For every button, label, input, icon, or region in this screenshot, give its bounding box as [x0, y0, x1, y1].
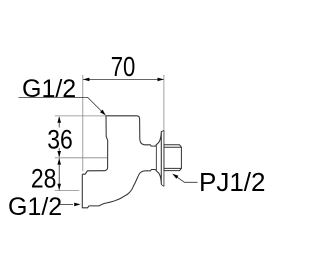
- leader for bottom G1/2: [60, 204, 73, 206]
- svg-text:G1/2: G1/2: [8, 193, 62, 221]
- svg-text:PJ1/2: PJ1/2: [199, 167, 266, 197]
- arrowhead right of 70 dim: [158, 78, 164, 82]
- extension line left vertical (x=82.8): [82, 75, 84, 171]
- svg-text:28: 28: [31, 164, 57, 194]
- leader for PJ1/2: [174, 175, 198, 183]
- body main outline: [82, 116, 161, 208]
- dim 28 vertical line: [58, 158, 60, 190]
- arrowhead down 36: [57, 151, 61, 157]
- svg-text:36: 36: [47, 125, 73, 155]
- thread PJ1/2: [164, 145, 181, 171]
- leader for top G1/2: underline + diagonal: [19, 97, 105, 113]
- svg-text:G1/2: G1/2: [22, 75, 76, 103]
- svg-text:70: 70: [111, 52, 136, 83]
- cone ring groove line: [155, 145, 157, 170]
- arrowhead down 28: [57, 184, 61, 190]
- arrowhead up 28: [57, 158, 61, 164]
- arrowhead of PJ1/2 leader: [172, 174, 178, 179]
- dim line 70: [83, 78, 164, 80]
- arrowhead of bottom G1/2 leader: [74, 203, 80, 207]
- dim 36 vertical line with gap for text: [58, 117, 60, 128]
- flange plate: [161, 130, 164, 186]
- horizontal extension line at top face y=115.9: [55, 115, 106, 117]
- arrowhead left of 70 dim: [83, 78, 89, 82]
- arrowhead of top G1/2 leader: [100, 110, 106, 116]
- arrowhead up 36: [57, 116, 61, 122]
- extension line right vertical (x=164.1): [163, 75, 165, 130]
- horizontal extension line low y=190.4: [55, 189, 80, 191]
- horizontal extension line mid y=157.8: [55, 157, 108, 159]
